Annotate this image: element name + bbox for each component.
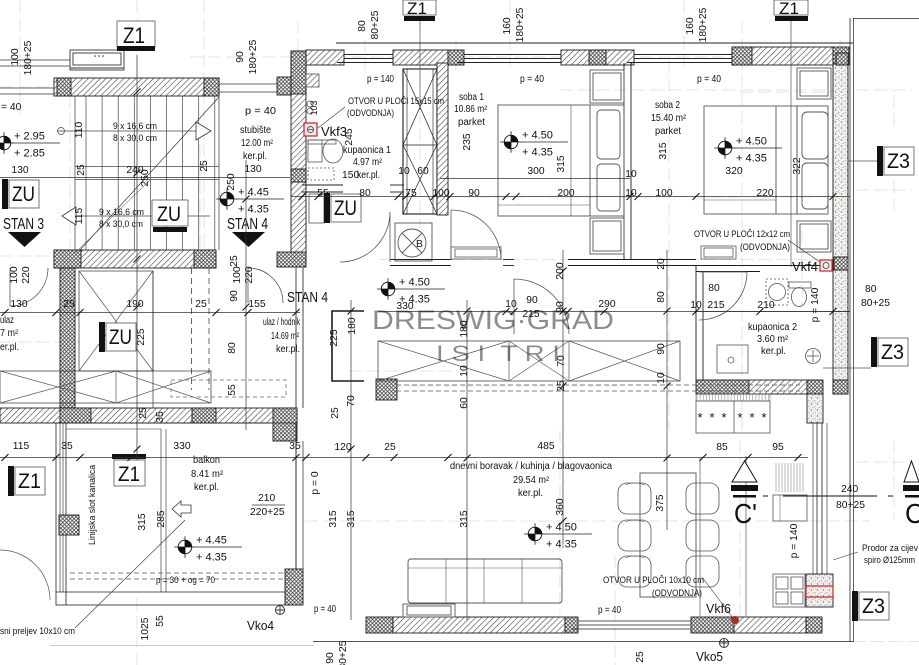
bed soba1	[498, 70, 624, 254]
svg-text:kupaonica 2: kupaonica 2	[748, 322, 797, 333]
svg-text:115: 115	[13, 441, 30, 452]
svg-text:315: 315	[346, 510, 357, 527]
svg-text:100: 100	[10, 48, 21, 65]
svg-text:100: 100	[432, 188, 449, 199]
marker ZU left	[2, 179, 8, 209]
svg-text:10: 10	[656, 372, 667, 384]
svg-text:80+25: 80+25	[861, 298, 890, 309]
bench soba2 bottom	[701, 246, 736, 259]
prodor red box	[806, 586, 833, 597]
left vertical wall below stairs	[60, 268, 75, 408]
svg-text:+ 4.50: + 4.50	[399, 277, 430, 289]
svg-text:+ 2.95: + 2.95	[14, 131, 45, 143]
shaft with X bracing	[403, 69, 437, 214]
balcony drain channel square	[59, 515, 79, 535]
svg-text:225: 225	[329, 329, 340, 346]
svg-text:160: 160	[502, 17, 513, 34]
svg-text:9 x 16,6 cm: 9 x 16,6 cm	[113, 121, 157, 131]
svg-text:Vko4: Vko4	[247, 619, 274, 633]
top exterior wall with windows	[306, 43, 853, 65]
svg-text:Z1: Z1	[123, 23, 145, 48]
svg-text:25: 25	[556, 380, 567, 392]
svg-text:*: *	[761, 410, 766, 425]
svg-text:parket: parket	[458, 117, 485, 128]
svg-text:ker.pl.: ker.pl.	[276, 344, 300, 355]
svg-text:10: 10	[690, 300, 702, 311]
svg-text:4.97 m²: 4.97 m²	[353, 157, 383, 168]
svg-text:C: C	[905, 498, 919, 529]
hodnik dashed overhead shelf	[171, 380, 286, 397]
dashed verticals hallway	[192, 268, 210, 390]
svg-text:12.00 m²: 12.00 m²	[241, 138, 274, 149]
svg-text:+ 4.45: + 4.45	[196, 535, 227, 547]
svg-text:220: 220	[756, 188, 773, 199]
svg-text:80+25: 80+25	[836, 500, 865, 511]
elevation marker +4.50 dnevni	[524, 523, 545, 545]
svg-text:130: 130	[244, 164, 261, 175]
svg-text:sni preljev 10x10 cm: sni preljev 10x10 cm	[0, 626, 75, 636]
svg-text:25: 25	[63, 299, 75, 310]
svg-text:+ 4.50: + 4.50	[522, 130, 553, 142]
svg-text:Z3: Z3	[862, 595, 885, 618]
svg-text:330: 330	[173, 441, 190, 452]
svg-text:200: 200	[555, 262, 566, 279]
svg-text:10.86 m²: 10.86 m²	[454, 104, 488, 115]
bottom exterior wall	[366, 617, 393, 633]
svg-text:60: 60	[417, 166, 429, 177]
svg-text:250: 250	[226, 173, 237, 190]
kupaonica1 fixtures	[306, 74, 343, 223]
chairs	[618, 483, 719, 587]
marker ZU hall	[99, 322, 105, 352]
kupaonica1 south wall	[302, 185, 404, 192]
svg-text:OTVOR U PLOČI 15x15 cm: OTVOR U PLOČI 15x15 cm	[348, 96, 444, 106]
svg-text:80: 80	[865, 284, 877, 295]
marker Z3 bottom-right	[852, 591, 858, 621]
svg-text:80: 80	[656, 291, 667, 303]
svg-text:ZU: ZU	[109, 326, 132, 349]
svg-text:*: *	[709, 410, 714, 425]
svg-text:+ 2.85: + 2.85	[14, 148, 45, 160]
sofa living room	[403, 559, 562, 617]
svg-text:ZU: ZU	[334, 197, 357, 220]
svg-text:25: 25	[330, 407, 341, 419]
svg-text:8 x 30,0 cm: 8 x 30,0 cm	[99, 219, 143, 229]
svg-text:OTVOR U PLOČI 10x10 cm: OTVOR U PLOČI 10x10 cm	[603, 575, 704, 585]
marker Z1 balcony mid (bar on top)	[112, 454, 146, 459]
svg-text:180+25: 180+25	[698, 7, 709, 42]
svg-text:10: 10	[625, 188, 637, 199]
svg-text:90: 90	[235, 51, 246, 63]
svg-text:130: 130	[11, 165, 28, 176]
balcony dashed p=30 line	[70, 385, 800, 579]
svg-text:+ 4.35: + 4.35	[522, 147, 553, 159]
svg-text:Vkf6: Vkf6	[706, 602, 731, 616]
dining table	[640, 473, 696, 597]
right exterior wall	[833, 64, 848, 394]
svg-text:95: 95	[772, 442, 784, 453]
svg-text:100: 100	[232, 266, 243, 283]
svg-text:485: 485	[537, 441, 554, 452]
svg-text:+ 4.35: + 4.35	[736, 153, 767, 165]
kupaonica2 west wall	[696, 266, 703, 380]
stair direction arrows	[196, 122, 211, 140]
svg-text:245: 245	[344, 128, 355, 145]
svg-text:100: 100	[655, 188, 672, 199]
svg-text:90: 90	[656, 343, 667, 355]
svg-text:35: 35	[155, 411, 166, 423]
elevation marker +2.95	[0, 132, 14, 154]
elevation marker +4.50 hodnik	[377, 278, 398, 300]
elevation marker +4.50 soba1	[500, 131, 521, 153]
svg-text:1025: 1025	[140, 617, 151, 640]
apartment left wall (kupaonica1 west)	[291, 51, 306, 267]
tall closet stan3 ulaz	[79, 271, 153, 408]
balcony outline	[56, 423, 296, 605]
svg-text:OTVOR U PLOČI 12x12 cm: OTVOR U PLOČI 12x12 cm	[694, 229, 790, 239]
svg-text:DRESWIG·GRAD: DRESWIG·GRAD	[372, 305, 614, 335]
hallway wall corner near ZU	[332, 311, 364, 381]
svg-text:360: 360	[555, 498, 566, 515]
svg-text:80: 80	[227, 342, 238, 354]
section C-prime	[731, 461, 758, 529]
elevation marker +4.50 soba2	[714, 137, 735, 159]
svg-text:300: 300	[527, 166, 544, 177]
svg-text:*: *	[749, 410, 754, 425]
svg-text:90: 90	[229, 290, 240, 302]
marker ZU stairs (bar under)	[152, 200, 188, 226]
svg-text:er.pl.: er.pl.	[0, 342, 19, 353]
svg-text:55: 55	[155, 615, 166, 627]
svg-text:balkon: balkon	[193, 455, 220, 466]
svg-text:210: 210	[258, 493, 275, 504]
svg-text:90: 90	[325, 652, 336, 664]
entry lower wall	[0, 408, 297, 423]
svg-text:180+25: 180+25	[515, 7, 526, 42]
svg-text:Z3: Z3	[881, 341, 904, 364]
elevation marker +4.45 stan4	[216, 188, 237, 210]
svg-text:35: 35	[61, 441, 73, 452]
svg-text:Linijska slot kanalica: Linijska slot kanalica	[87, 465, 97, 545]
svg-text:14.69 m²: 14.69 m²	[271, 331, 300, 342]
svg-text:8 x 30,0 cm: 8 x 30,0 cm	[113, 133, 157, 143]
kupaonica2 fixtures	[717, 279, 821, 373]
marker Z1 top-mid	[403, 0, 436, 15]
svg-text:(ODVODNJA): (ODVODNJA)	[652, 588, 702, 598]
svg-text:75: 75	[405, 188, 417, 199]
svg-text:+ 4.35: + 4.35	[196, 552, 227, 564]
svg-text:103: 103	[309, 101, 319, 116]
marker Z1 top-right	[774, 0, 808, 15]
svg-text:p = 40: p = 40	[314, 604, 336, 615]
stair corner block	[277, 77, 291, 95]
corridor wall below bedrooms	[390, 260, 833, 272]
svg-text:p = 140: p = 140	[789, 523, 800, 558]
svg-text:*: *	[721, 410, 726, 425]
svg-text:220: 220	[21, 266, 32, 283]
svg-text:285: 285	[156, 510, 167, 527]
watermark	[372, 305, 614, 366]
boiler B	[395, 223, 432, 261]
svg-text:215: 215	[707, 300, 724, 311]
svg-text:B: B	[416, 239, 423, 250]
svg-text:315: 315	[137, 513, 148, 530]
svg-text:Z1: Z1	[779, 0, 799, 18]
svg-text:*: *	[737, 410, 742, 425]
kupaonica2 south wall	[696, 380, 749, 394]
marker Z1 top-left	[117, 21, 155, 47]
door arcs	[0, 210, 747, 600]
svg-text:315: 315	[328, 510, 339, 527]
svg-text:Z1: Z1	[118, 463, 140, 486]
svg-text:315: 315	[459, 510, 470, 527]
svg-text:p = 40: p = 40	[520, 74, 544, 85]
bed soba2	[704, 68, 831, 252]
svg-text:180+25: 180+25	[23, 40, 34, 75]
svg-text:25: 25	[384, 442, 396, 453]
svg-text:ker.pl.: ker.pl.	[194, 482, 219, 493]
wall shaft/soba1	[437, 63, 448, 215]
svg-text:kupaonica 1: kupaonica 1	[343, 145, 391, 156]
svg-text:25: 25	[199, 160, 210, 172]
svg-text:soba 1: soba 1	[459, 92, 484, 103]
svg-text:100: 100	[9, 266, 20, 283]
svg-text:180: 180	[347, 317, 358, 334]
marker ZU kupaonica1	[324, 193, 330, 223]
dimension lines	[0, 55, 850, 620]
svg-text:Z1: Z1	[407, 0, 427, 18]
svg-text:85: 85	[716, 442, 728, 453]
svg-text:ker.pl.: ker.pl.	[761, 346, 786, 357]
kitchen east wall pier	[807, 394, 823, 423]
svg-text:80: 80	[359, 188, 371, 199]
svg-text:80+25: 80+25	[370, 10, 381, 39]
svg-text:29.54 m²: 29.54 m²	[513, 475, 550, 486]
svg-text:315: 315	[556, 155, 567, 172]
svg-text:80: 80	[708, 283, 720, 294]
radiator top-left	[70, 50, 124, 70]
leader lines	[75, 107, 858, 628]
svg-text:180+25: 180+25	[248, 39, 259, 74]
svg-text:130: 130	[10, 299, 27, 310]
stair bottom wall	[54, 250, 216, 268]
svg-text:55: 55	[317, 188, 329, 199]
svg-text:Vko5: Vko5	[696, 650, 723, 664]
svg-text:+ 4.45: + 4.45	[238, 187, 269, 199]
svg-text:(ODVODNJA): (ODVODNJA)	[347, 108, 394, 118]
svg-text:p = 140: p = 140	[810, 287, 821, 322]
svg-text:STAN 3: STAN 3	[3, 216, 44, 233]
svg-text:dnevni boravak / kuhinja / bla: dnevni boravak / kuhinja / blagovaonica	[450, 461, 613, 472]
svg-text:240: 240	[841, 484, 858, 495]
svg-text:p = 0: p = 0	[310, 471, 321, 494]
svg-text:70: 70	[346, 395, 357, 407]
svg-text:35: 35	[289, 441, 301, 452]
svg-text:20: 20	[656, 258, 667, 270]
staircase treads	[57, 96, 219, 253]
bench below soba1 door	[451, 247, 501, 259]
svg-text:Prodor za cijev: Prodor za cijev	[862, 543, 919, 553]
entry closet band	[0, 371, 211, 403]
stair top wall	[54, 78, 219, 96]
svg-text:110: 110	[74, 122, 85, 139]
svg-text:90: 90	[468, 188, 480, 199]
svg-text:I S I T R I: I S I T R I	[436, 341, 560, 366]
svg-text:8.41 m²: 8.41 m²	[191, 469, 224, 480]
svg-text:375: 375	[655, 494, 666, 511]
svg-text:235: 235	[462, 133, 473, 150]
svg-text:220+25: 220+25	[250, 507, 285, 518]
svg-text:10: 10	[459, 365, 470, 377]
svg-text:225: 225	[136, 328, 147, 345]
kitchen lower cabinets	[773, 495, 807, 607]
svg-text:+ 4.35: + 4.35	[546, 539, 577, 551]
svg-text:parket: parket	[655, 126, 681, 137]
svg-text:p = 140: p = 140	[367, 74, 394, 85]
svg-text:320: 320	[725, 166, 742, 177]
svg-text:+ 4.35: + 4.35	[238, 204, 269, 216]
svg-text:210: 210	[757, 300, 774, 311]
svg-text:STAN 4: STAN 4	[227, 216, 268, 233]
svg-text:ulaz: ulaz	[0, 315, 14, 326]
balcony right wall piece	[285, 569, 303, 605]
corridor closet band	[378, 341, 680, 381]
svg-text:10: 10	[398, 166, 410, 177]
svg-text:200: 200	[557, 188, 574, 199]
svg-text:80: 80	[357, 20, 368, 32]
svg-text:spiro Ø125mm: spiro Ø125mm	[864, 555, 915, 565]
wall soba1/soba2	[624, 63, 631, 259]
svg-text:p = 40: p = 40	[598, 605, 621, 616]
svg-text:160: 160	[685, 17, 696, 34]
kitchen counters	[696, 394, 770, 433]
svg-text:250: 250	[140, 169, 151, 186]
hall east thin wall	[296, 268, 303, 408]
section C (right edge)	[903, 461, 919, 529]
svg-text:322: 322	[792, 157, 803, 174]
svg-text:25: 25	[76, 164, 87, 176]
svg-text:3.60 m²: 3.60 m²	[757, 334, 789, 345]
marker Z1 balcony left	[8, 466, 14, 496]
svg-text:stubište: stubište	[240, 125, 272, 136]
landing parapet lines	[219, 84, 277, 92]
svg-text:ker.pl.: ker.pl.	[357, 170, 380, 181]
svg-text:25: 25	[195, 299, 207, 310]
arrow balkon	[172, 501, 191, 517]
svg-text:ker.pl.: ker.pl.	[518, 488, 543, 499]
svg-text:= 40: = 40	[1, 102, 22, 113]
svg-text:*: *	[697, 410, 702, 425]
svg-text:60: 60	[459, 397, 470, 409]
svg-text:ker.pl.: ker.pl.	[243, 151, 267, 162]
svg-text:STAN 4: STAN 4	[287, 289, 328, 306]
svg-text:25: 25	[138, 407, 149, 419]
svg-text:soba 2: soba 2	[655, 100, 680, 111]
svg-text:ZU: ZU	[12, 183, 35, 206]
svg-text:155: 155	[248, 299, 265, 310]
svg-text:p = 40: p = 40	[245, 106, 276, 117]
svg-text:115: 115	[74, 208, 85, 225]
svg-text:C': C'	[734, 498, 757, 529]
svg-text:80+25: 80+25	[338, 640, 349, 665]
svg-text:Z3: Z3	[887, 150, 910, 173]
svg-text:ZU: ZU	[157, 203, 181, 226]
svg-text:7 m²: 7 m²	[0, 328, 19, 339]
svg-text:55: 55	[227, 384, 238, 396]
svg-text:ulaz / hodnik: ulaz / hodnik	[263, 317, 300, 328]
svg-text:25: 25	[229, 255, 240, 267]
marker Z3 right-2	[871, 337, 877, 367]
svg-text:15.40 m²: 15.40 m²	[651, 113, 687, 124]
svg-text:p = 40: p = 40	[697, 74, 721, 85]
svg-text:(ODVODNJA): (ODVODNJA)	[740, 242, 790, 252]
svg-text:Z1: Z1	[18, 470, 41, 493]
svg-text:25: 25	[635, 651, 646, 663]
elevation marker +4.45 balkon	[174, 536, 195, 558]
marker Z3 right-1	[877, 146, 883, 176]
svg-text:315: 315	[658, 142, 669, 159]
svg-text:+ 4.50: + 4.50	[736, 136, 767, 148]
svg-text:Vkf4: Vkf4	[792, 260, 818, 274]
svg-text:p = 30 + og = 70: p = 30 + og = 70	[156, 575, 215, 585]
